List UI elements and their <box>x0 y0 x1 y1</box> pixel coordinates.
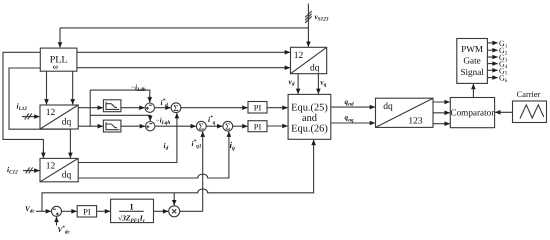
Equ block <box>288 94 331 139</box>
svg-text:Σ: Σ <box>199 122 204 132</box>
svg-text:and: and <box>302 113 318 124</box>
wire G5 output <box>488 69 498 71</box>
svg-text:dq: dq <box>62 171 72 181</box>
wire G2 output <box>488 49 498 51</box>
svg-text:123: 123 <box>408 117 423 127</box>
block PLL <box>40 48 77 71</box>
svg-text:vq: vq <box>320 78 326 89</box>
PWM Gate Signal block <box>457 39 488 84</box>
block1 12-dq for iL12 <box>40 105 78 129</box>
wire rail into Equ bottom arrow <box>313 140 315 146</box>
svg-text:V*dc: V*dc <box>58 225 71 236</box>
wire block1 row1 output to filter1 <box>78 107 103 109</box>
svg-text:PI: PI <box>254 122 262 132</box>
svg-text:Σ: Σ <box>225 122 230 132</box>
wire iC12 input arrow with slashes <box>23 167 39 173</box>
PI2 box <box>248 121 267 132</box>
PI1 box <box>248 102 267 114</box>
wire harmonic bracket vertical <box>89 90 91 126</box>
svg-text:i*d: i*d <box>161 98 169 109</box>
block dq to 123 <box>376 98 434 127</box>
wire PLL right lower output to top dq block <box>77 67 290 69</box>
wire G4 output <box>488 63 498 65</box>
wire G6 output <box>488 77 498 79</box>
wire vs123 vertical into top 12-dq block <box>305 4 312 47</box>
wire fraction to multiplier <box>154 210 169 212</box>
svg-text:12: 12 <box>294 51 304 61</box>
wire circle2 to sigma2 (crosses id line) <box>155 125 196 127</box>
summing sigma3 <box>223 121 233 131</box>
wire sigma3 to PI2 <box>233 125 248 127</box>
wire PLL left lower output wrap to block1 bottom <box>9 68 70 129</box>
block2 12-dq for iC12 <box>40 158 78 181</box>
Carrier block with triangle wave <box>513 101 547 123</box>
wire carrier to comparator <box>495 111 512 113</box>
wire vd output <box>297 74 299 94</box>
wire PI2 to Equ <box>267 125 288 127</box>
PI3 box <box>77 206 96 217</box>
wire iL12 input arrow with slashes <box>22 113 39 119</box>
wire sigma1 to PI1 <box>181 107 248 109</box>
summing sigma2 <box>196 121 206 131</box>
summing circle2 q-axis <box>146 122 155 131</box>
svg-text:vS123: vS123 <box>315 12 329 23</box>
wire comparator to PWM <box>472 84 474 98</box>
wire circle to PI3 <box>62 210 77 212</box>
wire down into PLL top <box>59 28 61 48</box>
wire filter2 to circle2 <box>121 125 145 127</box>
wire G3 output <box>488 56 498 58</box>
fraction gain box 1/sqrt3 Zpf1 Ic <box>111 199 154 224</box>
svg-text:Signal: Signal <box>460 67 484 77</box>
wire PLL left upper output wrap to block2 top-left <box>3 52 43 155</box>
svg-text:−iLdh: −iLdh <box>131 83 146 93</box>
wire qnd Equ to dq123 <box>331 106 375 108</box>
svg-text:iC12: iC12 <box>7 165 18 176</box>
svg-text:Σ: Σ <box>173 103 178 113</box>
wire PLL bottom output 2 to block1 <box>72 71 74 104</box>
wire Vdc* up into circle <box>56 217 58 226</box>
svg-text:Comparator: Comparator <box>450 107 494 117</box>
filter2 low-pass <box>103 120 121 132</box>
svg-text:PI: PI <box>83 207 91 217</box>
svg-text:vd: vd <box>289 77 295 88</box>
wire -iLdh branch to circle1 top <box>90 90 150 102</box>
wire multiplier output to iq1* vertical <box>180 210 203 212</box>
wire dq123 output b <box>433 112 450 114</box>
summing circle1 d-axis <box>145 103 154 112</box>
svg-text:PI: PI <box>254 103 262 113</box>
svg-text:i*q1: i*q1 <box>192 139 202 150</box>
svg-text:Vdc: Vdc <box>25 205 35 215</box>
summing circle Vdc <box>52 206 62 216</box>
svg-text:12: 12 <box>46 108 56 118</box>
wire PI3 to fraction box <box>97 210 110 212</box>
wire Vdc into summing circle <box>36 210 51 212</box>
svg-text:iq: iq <box>230 140 236 152</box>
Comparator block <box>450 98 494 128</box>
svg-text:i*q: i*q <box>208 115 216 126</box>
wire id from block2 up to sigma1 <box>78 114 177 163</box>
wire PI1 to Equ <box>267 107 288 109</box>
wire vq output <box>317 74 319 94</box>
wire vs123 branch to PLL <box>60 27 308 29</box>
svg-text:qnq: qnq <box>345 114 354 124</box>
svg-text:ω: ω <box>53 64 58 71</box>
block top 12-dq transform <box>291 47 327 73</box>
svg-text:Equ.(25): Equ.(25) <box>291 103 328 114</box>
wire iq1* from multiplier up to sigma2 <box>202 132 204 211</box>
filter1 low-pass <box>103 100 121 112</box>
svg-text:id: id <box>164 141 169 152</box>
multiplier circle <box>169 206 180 217</box>
wire circle1 to sigma1, label id* <box>155 107 171 109</box>
wire PLL right upper output to top dq block <box>77 51 290 53</box>
svg-text:1: 1 <box>129 201 133 211</box>
wire dq123 output c <box>433 123 450 125</box>
svg-text:−iLqh: −iLqh <box>156 117 171 127</box>
wire -iLqh branch to circle2 top <box>90 115 150 120</box>
wire filter1 to circle1 <box>121 107 145 109</box>
wire G1 output <box>488 42 498 44</box>
svg-text:dq: dq <box>383 102 393 112</box>
svg-text:12: 12 <box>46 161 56 171</box>
wire qnq Equ to dq123 <box>331 122 375 124</box>
wire block1 row2 output to filter2 <box>78 125 103 127</box>
svg-text:Equ.(26): Equ.(26) <box>291 123 328 134</box>
svg-text:Carrier: Carrier <box>517 90 541 99</box>
wire sigma2 to sigma3, label iq* <box>206 125 222 127</box>
summing sigma1 <box>171 103 181 113</box>
svg-text:dq: dq <box>310 63 320 73</box>
svg-text:Gate: Gate <box>463 56 480 66</box>
svg-text:dq: dq <box>62 117 72 127</box>
wire PLL bottom output 1 to block1 <box>46 71 48 104</box>
wire iq from block2 to sigma3 with hop <box>78 132 229 178</box>
svg-text:PWM: PWM <box>461 44 483 54</box>
wire dq123 output a <box>433 101 450 103</box>
wire rail branch down into multiplier top <box>173 193 175 205</box>
wire Vdc feedforward rail <box>42 142 314 212</box>
wire block1 bottom to block2 top <box>69 129 71 158</box>
svg-text:qnd: qnd <box>345 98 354 108</box>
svg-text:iL12: iL12 <box>17 102 28 113</box>
